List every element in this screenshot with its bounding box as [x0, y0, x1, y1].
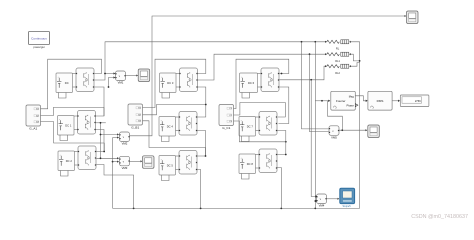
arrow VM4 input 2 [316, 200, 318, 202]
wire chain C2 bottom to C3 top [277, 131, 286, 155]
Fourier block [331, 91, 356, 110]
wire neutral bus bottom [113, 207, 360, 209]
wire gate loop cell A2 [41, 108, 105, 117]
wire VM3 input 2 [113, 161, 119, 163]
voltage measurement VM5 [329, 126, 339, 136]
wire VM3 input 1 from A3 mid output [97, 157, 119, 159]
junction phase A tap VM4 [314, 41, 316, 43]
svg-text:G_A1: G_A1 [29, 127, 37, 131]
wire DC DC 6 to bridge C1 terminals [258, 73, 262, 75]
svg-text:+: + [161, 120, 162, 122]
svg-text:2766: 2766 [415, 99, 421, 103]
svg-text:VM2: VM2 [122, 142, 128, 146]
wire phase B output to RL1 branch [198, 54, 327, 80]
DC source DC 6 [240, 73, 258, 93]
DC source DC [56, 73, 73, 93]
svg-text:Scope5: Scope5 [342, 205, 351, 208]
wire RL2 right end to neutral [351, 63, 360, 67]
wire DC DC to bridge A1 terminals [73, 73, 77, 75]
svg-text:RL2: RL2 [335, 71, 340, 75]
wire phase A down to VM5 input 1 [302, 42, 329, 129]
wire DC DC 5 to bridge B3 terminals [176, 155, 180, 157]
wire gate loop cell A1 [41, 59, 102, 109]
wire tap down to VM2/VM3 input 1 [100, 123, 102, 159]
scope Scope3 [368, 125, 380, 138]
Display block [400, 95, 429, 107]
svg-text:+: + [241, 157, 242, 159]
series RL branch RL2 [325, 64, 351, 68]
wire Fourier Mag to RMS input [355, 96, 366, 101]
wire chain A1 bottom to A2 top [95, 87, 105, 116]
wire VM1 input 2 from chain [109, 78, 115, 88]
svg-text:Phase: Phase [346, 104, 354, 108]
wire C3 bottom to bus [277, 168, 281, 209]
svg-text:+: + [161, 76, 162, 78]
wire gate loop cell B2 [143, 105, 206, 115]
wire VM1 output to Scope1 [126, 75, 137, 77]
junction phase A tap VM5 [301, 41, 303, 43]
wire RL1 right end to neutral [349, 54, 360, 61]
wire notch under DC DC 2 [61, 171, 69, 177]
wire RL right end to neutral [350, 42, 360, 209]
wire VM3 output to Scope2 [130, 160, 141, 162]
svg-text:DC 8: DC 8 [247, 162, 254, 166]
wire Fourier input from phase line [315, 100, 328, 102]
svg-text:powergui: powergui [33, 45, 45, 49]
junction bus A3 [133, 208, 135, 210]
junction neutral RL1 [359, 60, 361, 62]
junction bus B3 [200, 208, 202, 210]
wire RMS output to Display [392, 100, 398, 102]
wire gate loop cell C2 [234, 103, 286, 118]
wire VM2 input 2 from bus riser [113, 137, 119, 139]
svg-text:+: + [58, 76, 59, 78]
junction phase C tap [310, 79, 312, 81]
junction phase B tap VM5 [309, 53, 311, 55]
wire gate loop cell B1 [143, 59, 206, 107]
DC source DC 2 [58, 151, 75, 171]
wire DC DC 1 to bridge A2 terminals [74, 115, 78, 117]
svg-text:DC 4: DC 4 [167, 124, 174, 128]
svg-text:DC 1: DC 1 [65, 123, 72, 127]
svg-text:+: + [241, 120, 242, 122]
svg-text:Continuous: Continuous [31, 37, 47, 41]
svg-text:CSDN @m0_74180637: CSDN @m0_74180637 [411, 214, 468, 220]
wire gate loop cell A3 [41, 122, 105, 152]
series RL branch RL1 [325, 52, 351, 56]
wire VM4 output to Scope5 [327, 198, 338, 200]
svg-text:DC 6: DC 6 [248, 81, 255, 85]
scope Scope5 selected [340, 188, 355, 203]
wire bus riser x112 [112, 138, 114, 209]
series RL branch RL [325, 40, 351, 44]
IGBT H-bridge B1 [179, 68, 197, 92]
gate signal source G_B1 [128, 104, 143, 125]
gate signal source G_C1 [219, 105, 234, 126]
wire phase B down to VM5 input 2 [310, 54, 329, 131]
voltage measurement VM2 [119, 132, 129, 142]
wire A2 mid output tap [96, 122, 106, 124]
DC source DC 4 [159, 117, 176, 137]
DC source DC 5 [159, 156, 176, 176]
IGBT H-bridge B3 [179, 151, 197, 175]
IGBT H-bridge C2 [259, 112, 277, 136]
junction A3 top port [103, 151, 105, 153]
wire A3 bottom to bus [97, 165, 134, 209]
junction cell C1 gate port [281, 73, 283, 75]
junction B2 loop [205, 104, 207, 106]
IGBT H-bridge B2 [179, 112, 197, 136]
junction C3 loop [285, 141, 287, 143]
svg-text:VM1: VM1 [118, 81, 124, 85]
wire chain A2 bottom to A3 top [96, 130, 105, 152]
arrow VM4 input 1 [316, 195, 318, 197]
wire notch under DC DC 5 [162, 175, 170, 181]
svg-text:RMS: RMS [377, 99, 384, 103]
gate signal source G_A1 [26, 105, 41, 126]
IGBT H-bridge C1 [261, 68, 279, 92]
DC source DC 7 [239, 117, 256, 137]
wire phase A down to VM4 input 2 and bus [314, 42, 316, 209]
wire VM1 input 1 from phase A [105, 73, 115, 75]
svg-text:RL: RL [336, 47, 340, 51]
junction VM4 input 2 [314, 200, 316, 202]
svg-text:Mag: Mag [349, 94, 355, 98]
svg-text:VM5: VM5 [331, 135, 337, 139]
DC source DC 8 [239, 154, 256, 174]
wire notch under DC DC 3 [162, 93, 170, 99]
wire VM2 output to Scope4 top right [130, 16, 405, 136]
wire notch under DC DC 1 [60, 135, 68, 141]
svg-text:+: + [241, 76, 242, 78]
wire DC DC 3 to bridge B1 terminals [176, 73, 180, 75]
junction VM3 input 2 [112, 161, 114, 163]
svg-text:VM3: VM3 [122, 166, 128, 170]
IGBT H-bridge C3 [259, 149, 277, 173]
junction Fourier input [321, 100, 323, 102]
IGBT H-bridge A1 [76, 68, 94, 92]
junction bus VM4 [314, 208, 316, 210]
wire notch under DC DC 6 [242, 93, 250, 99]
scope Scope1 [138, 69, 150, 82]
wire VM5 output branch to Fourier input [328, 101, 343, 130]
scope Scope2 [143, 156, 155, 169]
wire notch under DC DC [59, 93, 67, 99]
wire gate loop cell C3 [234, 121, 286, 142]
junction bus C3 [280, 208, 282, 210]
svg-text:G_C1: G_C1 [222, 126, 230, 130]
svg-text:G_B1: G_B1 [131, 126, 139, 130]
wire VM5 output to Scope3 [339, 129, 366, 131]
RMS block [368, 91, 392, 110]
wire DC DC 4 to bridge B2 terminals [176, 116, 180, 118]
wire phase C down to VM4 input 1 [311, 80, 316, 197]
svg-text:+: + [59, 119, 60, 121]
svg-text:DC 3: DC 3 [167, 81, 174, 85]
wire phase C output to RL2 branch [280, 66, 327, 80]
IGBT H-bridge A2 [77, 111, 95, 135]
wire DC DC 8 to bridge C3 terminals [256, 154, 260, 156]
svg-text:+: + [161, 159, 162, 161]
wire chain B1 bottom to B2 top [197, 87, 206, 117]
DC source DC 1 [58, 116, 75, 136]
wire notch under DC DC 8 [242, 174, 250, 180]
IGBT H-bridge A3 [78, 146, 96, 170]
wire DC DC 2 to bridge A3 terminals [75, 151, 79, 153]
svg-text:DC 2: DC 2 [66, 159, 73, 163]
wire notch under DC DC 4 [162, 136, 170, 142]
wire chain B2 bottom to B3 top [197, 131, 206, 157]
wire DC DC 7 to bridge C2 terminals [256, 116, 260, 118]
svg-text:Fourier: Fourier [336, 99, 346, 103]
svg-text:DC: DC [65, 81, 69, 85]
svg-text:VM4: VM4 [319, 204, 325, 208]
wire chain C1 bottom to C2 top [279, 87, 289, 124]
svg-text:+: + [60, 154, 61, 156]
svg-text:RL1: RL1 [335, 59, 340, 63]
wire gate loop cell C1 [234, 59, 289, 108]
svg-text:DC 5: DC 5 [167, 163, 174, 167]
wire notch under DC DC 7 [242, 136, 250, 142]
junction C3 top port [285, 154, 287, 156]
scope Scope4 [407, 11, 419, 24]
port arrow Fourier Phase output [355, 104, 358, 107]
wire gate loop cell B3 [143, 121, 206, 156]
wire stub VM4 input 2 [314, 200, 317, 202]
voltage measurement VM3 [119, 156, 129, 166]
wire B3 bottom to bus [197, 170, 201, 209]
svg-text:DC 7: DC 7 [247, 124, 254, 128]
voltage measurement VM4 [316, 194, 326, 204]
wire VM2 input 1 [101, 134, 119, 136]
powergui block [29, 32, 50, 45]
wire phase A output to RL branch [95, 42, 327, 80]
DC source DC 3 [160, 73, 177, 93]
junction B3 top port [205, 155, 207, 157]
voltage measurement VM1 [115, 71, 125, 81]
